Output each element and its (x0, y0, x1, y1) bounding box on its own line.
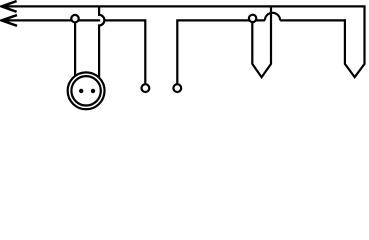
socket outlet X1 right pin dot (91, 89, 95, 93)
socket outlet X1 inner circle (71, 76, 100, 105)
node K2 on L2 (249, 15, 256, 22)
wire hop: drop from L1 jumping over L2, down to socket (99, 6, 104, 78)
wire L2 mid segment with drop to outlet E1 (105, 20, 146, 83)
down-arrow W1: drop from node K2 and from L1, converging point (252, 6, 271, 77)
arrowhead lower feed line (2, 15, 17, 26)
arrowhead upper feed line (2, 1, 17, 12)
wire L1 upper feed, right corner drop and down-arrow W2 right side (3, 6, 365, 77)
socket outlet X1 outer circle (68, 72, 105, 109)
node K1 on L2 (71, 15, 78, 22)
hop H2: L2 jumping over W1 drop (265, 13, 280, 21)
outlet circle E1 (142, 84, 150, 92)
wire socket drop from node K1 (74, 23, 76, 77)
wire L2 right segment to corner (280, 19, 345, 21)
wire L2 lower feed left segment (3, 19, 101, 21)
socket outlet X1 left pin dot (79, 89, 83, 93)
wire branch: outlet E2 riser and run to hop H2 (177, 20, 265, 83)
outlet circle E2 (173, 84, 181, 92)
